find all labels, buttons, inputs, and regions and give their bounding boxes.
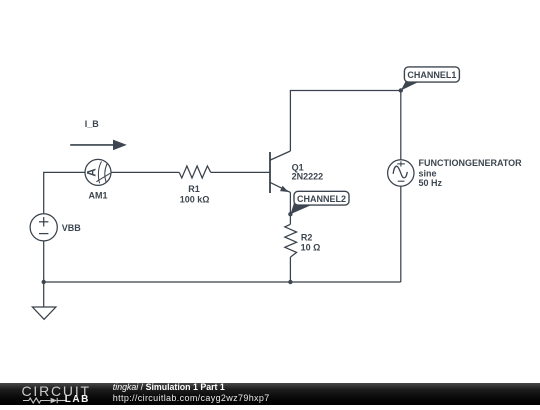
function generator sine mark [393,161,407,181]
resistor R1 [179,166,211,178]
I_B current arrow [70,140,127,151]
svg-text:100 kΩ: 100 kΩ [180,194,210,204]
svg-text:I_B: I_B [85,119,100,129]
wire ammeter to R1 [111,171,179,173]
CircuitLab logo wordmark [22,383,91,399]
svg-text:sine: sine [419,168,437,178]
svg-text:CHANNEL2: CHANNEL2 [297,194,346,204]
wire function generator bottom to ground rail [400,186,402,282]
node junction R2 bottom rail [288,280,292,284]
wire collector up and across to function generator [290,91,400,152]
node dot emitter/CHANNEL2 [288,212,292,216]
wire R1 to Q1 base [211,171,270,173]
bottom ground rail [44,281,401,283]
svg-text:VBB: VBB [62,223,82,233]
svg-text:2N2222: 2N2222 [292,172,324,182]
svg-text:R2: R2 [301,232,313,242]
svg-text:FUNCTIONGENERATOR: FUNCTIONGENERATOR [419,158,523,168]
voltage source VBB [30,214,57,241]
CHANNEL2 label box [294,191,349,205]
wire R2 to ground rail [289,257,291,282]
CHANNEL2 callout tail [290,200,310,214]
svg-text:R1: R1 [188,184,200,194]
svg-text:A: A [86,168,98,176]
ammeter AM1 [85,159,111,185]
CHANNEL1 label box [404,67,459,82]
function generator circle [388,160,414,186]
resistor R2 [285,224,297,257]
node junction VBB rail [42,280,46,284]
transistor Q1 [270,151,290,193]
svg-text:AM1: AM1 [88,190,107,200]
footer url line [113,393,270,403]
wire node to function generator top [400,91,402,160]
svg-text:50 Hz: 50 Hz [419,178,443,188]
wire VBB top to main rail [44,172,85,213]
svg-text:10 Ω: 10 Ω [301,242,321,252]
wire VBB bottom to rail [43,241,45,307]
CHANNEL1 callout tail [401,81,420,91]
footer bar [0,383,540,405]
footer title line [113,382,225,392]
svg-text:CHANNEL1: CHANNEL1 [407,70,456,80]
wire emitter down [289,192,291,224]
ground [32,307,56,319]
logo circuit squiggle [23,397,66,404]
node dot collector/CHANNEL1 [399,88,403,92]
